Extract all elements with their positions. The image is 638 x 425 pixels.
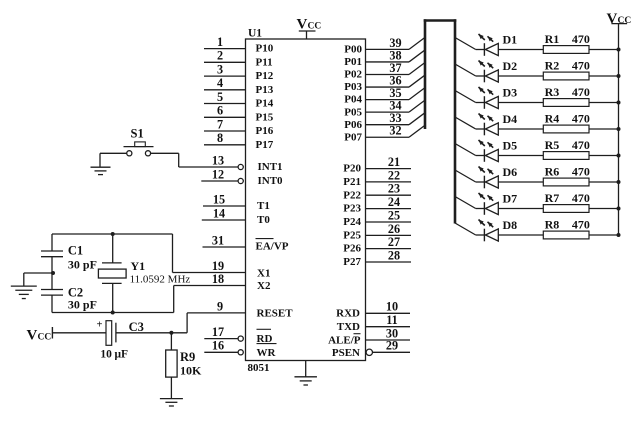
svg-text:P26: P26 — [343, 243, 361, 255]
C2 reference label — [68, 285, 83, 299]
switch S1 pushbutton — [124, 142, 154, 156]
svg-text:INT0: INT0 — [258, 175, 284, 187]
wire pin 28 (P27) — [366, 248, 412, 262]
node junction rail row 5 — [617, 154, 621, 158]
svg-text:R9: R9 — [180, 350, 195, 364]
wire bus to D4 (diagonal) — [455, 117, 484, 129]
D1 reference label — [503, 33, 518, 47]
svg-text:P00: P00 — [344, 44, 362, 56]
resistor R2 — [543, 72, 589, 80]
wire pin 5 (P14) — [204, 90, 246, 104]
wire pin 15 (T1) — [203, 192, 246, 206]
pin label P04 — [344, 94, 362, 106]
svg-text:P11: P11 — [256, 56, 273, 68]
wire D6 to R6 — [498, 181, 543, 183]
power VCC symbol (reset, left) — [27, 327, 53, 344]
capacitor C2 — [41, 290, 63, 296]
pin label EA/VP with overline — [256, 239, 289, 253]
wire pin 19 (X1) — [173, 259, 246, 273]
wire pin 2 (P11) — [204, 49, 246, 63]
pin label T1 — [257, 200, 270, 212]
wire pin 30 (ALE/P) — [366, 326, 411, 340]
svg-text:INT1: INT1 — [258, 161, 283, 173]
svg-text:P17: P17 — [256, 139, 274, 151]
resistor R1 — [543, 46, 589, 54]
svg-text:+: + — [97, 320, 103, 331]
pin label PSEN — [332, 347, 360, 359]
C1 reference label — [68, 244, 83, 258]
svg-text:P10: P10 — [256, 43, 274, 55]
pin label INT0 — [258, 175, 284, 187]
svg-text:T0: T0 — [257, 214, 270, 226]
LED D6 — [479, 167, 499, 189]
wire pin 3 (P12) — [204, 63, 246, 77]
pin label P14 — [256, 98, 274, 110]
pin label P22 — [343, 189, 361, 201]
C2 value label 30 pF — [68, 298, 97, 312]
svg-text:TXD: TXD — [337, 321, 360, 333]
wire C2 top stem — [51, 273, 53, 290]
wire pin 18 (X2) — [174, 272, 246, 286]
wire R3 to VCC rail — [589, 102, 619, 104]
R1 reference label — [545, 32, 560, 46]
wire VCC rail (right) — [618, 24, 620, 235]
8051 value label — [248, 362, 270, 374]
Y1 value label 11.0592 MHz — [130, 273, 191, 285]
resistor R9 — [166, 350, 177, 377]
wire pin 27 (P26) — [366, 235, 412, 249]
crystal Y1 — [98, 263, 126, 284]
node junction rail row 1 — [617, 48, 621, 52]
R5 reference label — [545, 138, 560, 152]
svg-text:C1: C1 — [68, 244, 83, 258]
R7 value label 470 — [572, 191, 590, 205]
svg-text:T1: T1 — [257, 200, 270, 212]
pin label WR with overline — [257, 344, 277, 359]
svg-text:PSEN: PSEN — [332, 347, 360, 359]
bus left edge — [424, 19, 427, 129]
svg-text:470: 470 — [572, 59, 590, 73]
wire D3 to R3 — [498, 102, 543, 104]
svg-text:P21: P21 — [343, 176, 361, 188]
svg-text:RXD: RXD — [336, 308, 360, 320]
svg-text:24: 24 — [388, 195, 400, 209]
wire junction to ground — [24, 273, 52, 286]
wire pin 39 (P00) with diagonal to bus — [366, 36, 426, 50]
wire S1 right terminal to INT1 — [151, 153, 179, 167]
D8 reference label — [503, 218, 518, 232]
capacitor C3 (electrolytic, + mark) — [97, 320, 116, 346]
svg-text:4: 4 — [217, 76, 223, 90]
C3 reference label — [129, 320, 144, 334]
wire VCC to C3 — [52, 332, 106, 334]
R4 value label 470 — [572, 112, 590, 126]
svg-text:ALE/P: ALE/P — [328, 334, 361, 346]
LED D8 — [479, 220, 499, 242]
C3 value label 10uF — [100, 349, 128, 361]
wire R4 to VCC rail — [589, 128, 619, 130]
wire pin 8 (P17) — [204, 131, 246, 145]
svg-text:P06: P06 — [344, 119, 362, 131]
switch S1 label — [131, 127, 144, 141]
svg-text:P04: P04 — [344, 94, 362, 106]
wire pin 1 (P10) — [204, 35, 246, 49]
svg-text:9: 9 — [217, 299, 223, 313]
pin label ALE/P with overline — [328, 334, 361, 347]
R1 value label 470 — [572, 32, 590, 46]
pin label T0 — [257, 214, 270, 226]
pin label P13 — [256, 84, 274, 96]
node junction rail row 6 — [617, 180, 621, 184]
node junction crystal-bottom — [111, 311, 115, 315]
R2 value label 470 — [572, 59, 590, 73]
svg-text:28: 28 — [388, 248, 400, 262]
LED D3 — [479, 87, 499, 109]
svg-text:11.0592 MHz: 11.0592 MHz — [130, 273, 191, 285]
wire crystal bottom rail (to X2) — [52, 286, 174, 313]
wire pin 36 (P03) with diagonal to bus — [366, 73, 426, 87]
svg-text:V: V — [607, 11, 618, 27]
bus right edge — [454, 19, 457, 223]
pin label P15 — [256, 111, 274, 123]
wire R9 top stem — [170, 333, 172, 350]
svg-text:12: 12 — [212, 167, 224, 181]
pin label P16 — [256, 125, 274, 137]
svg-text:8051: 8051 — [248, 362, 270, 374]
wire pin 14 (T0) — [202, 206, 246, 220]
D7 reference label — [503, 192, 518, 206]
power VCC symbol (IC top) — [297, 17, 322, 40]
pin label P21 — [343, 176, 361, 188]
svg-text:470: 470 — [572, 138, 590, 152]
wire pin 25 (P24) — [366, 208, 412, 222]
pin label P11 — [256, 56, 273, 68]
svg-text:10K: 10K — [180, 363, 202, 377]
D4 reference label — [503, 112, 518, 126]
svg-text:P15: P15 — [256, 111, 274, 123]
wire pin 23 (P22) — [366, 182, 412, 196]
pin label P07 — [344, 131, 362, 143]
svg-text:470: 470 — [572, 32, 590, 46]
wire R1 to VCC rail — [589, 49, 619, 51]
R4 reference label — [545, 112, 560, 126]
node junction rail row 7 — [617, 207, 621, 211]
svg-text:CC: CC — [38, 333, 52, 343]
pin label TXD — [337, 321, 360, 333]
resistor R4 — [543, 125, 589, 133]
svg-text:31: 31 — [212, 233, 224, 247]
wire pin 4 (P13) — [204, 76, 246, 90]
ground (R9) — [160, 399, 183, 406]
wire pin 12 (INT0) with inversion bubble — [201, 167, 243, 183]
R7 reference label — [545, 191, 560, 205]
pin label P20 — [343, 163, 361, 175]
R2 reference label — [545, 59, 560, 73]
svg-text:D3: D3 — [503, 86, 518, 100]
D3 reference label — [503, 86, 518, 100]
svg-text:P20: P20 — [343, 163, 361, 175]
svg-text:R1: R1 — [545, 32, 560, 46]
wire R6 to VCC rail — [589, 181, 619, 183]
node junction rail row 4 — [617, 127, 621, 131]
wire bus to D3 (diagonal) — [455, 91, 484, 103]
R5 value label 470 — [572, 138, 590, 152]
wire C2 bottom stem — [51, 295, 53, 312]
IC U1 (8051) body — [246, 39, 366, 361]
svg-text:D8: D8 — [503, 218, 518, 232]
wire D4 to R4 — [498, 128, 543, 130]
svg-text:CC: CC — [308, 22, 322, 32]
svg-text:P13: P13 — [256, 84, 274, 96]
svg-text:29: 29 — [386, 339, 398, 353]
svg-text:18: 18 — [212, 272, 224, 286]
LED D5 — [479, 140, 499, 162]
wire pin 35 (P04) with diagonal to bus — [366, 86, 426, 100]
wire pin 6 (P15) — [204, 104, 246, 118]
capacitor C1 — [41, 251, 63, 257]
resistor R3 — [543, 99, 589, 107]
wire D5 to R5 — [498, 155, 543, 157]
R9 value label 10K — [180, 363, 202, 377]
svg-text:P16: P16 — [256, 125, 274, 137]
svg-text:P23: P23 — [343, 203, 361, 215]
svg-text:6: 6 — [217, 104, 223, 118]
R3 reference label — [545, 85, 560, 99]
svg-text:V: V — [297, 17, 308, 33]
wire R5 to VCC rail — [589, 155, 619, 157]
svg-text:8: 8 — [217, 131, 223, 145]
pin label P03 — [344, 81, 362, 93]
wire pin 13 (INT1) with inversion bubble — [179, 153, 244, 169]
svg-text:RESET: RESET — [257, 307, 294, 319]
resistor R5 — [543, 152, 589, 160]
svg-text:R8: R8 — [545, 218, 560, 232]
node junction C3/R9 — [169, 331, 173, 335]
pin label RD with overline — [257, 329, 273, 345]
svg-text:R3: R3 — [545, 85, 560, 99]
svg-text:470: 470 — [572, 218, 590, 232]
wire pin 32 (P07) with diagonal to bus — [366, 124, 426, 138]
svg-text:S1: S1 — [131, 127, 144, 141]
wire pin 24 (P23) — [366, 195, 412, 209]
wire D2 to R2 — [498, 75, 543, 77]
U1 reference label — [248, 28, 262, 40]
wire bus to D6 (diagonal) — [455, 170, 484, 182]
wire pin 31 (EA/VP) — [203, 233, 246, 247]
pin label P17 — [256, 139, 274, 151]
pin label X1 — [257, 267, 270, 279]
svg-text:D7: D7 — [503, 192, 518, 206]
pin label P02 — [344, 69, 362, 81]
R8 value label 470 — [572, 218, 590, 232]
svg-text:D4: D4 — [503, 112, 518, 126]
wire C1 top stem — [51, 234, 53, 251]
svg-text:D5: D5 — [503, 139, 518, 153]
pin label P25 — [343, 230, 361, 242]
svg-text:X2: X2 — [257, 280, 271, 292]
R3 value label 470 — [572, 85, 590, 99]
svg-text:D1: D1 — [503, 33, 518, 47]
LED D7 — [479, 193, 499, 215]
wire pin 17 (RD) with inversion bubble — [204, 325, 243, 341]
svg-text:D6: D6 — [503, 165, 518, 179]
svg-text:17: 17 — [212, 325, 224, 339]
svg-text:16: 16 — [212, 339, 224, 353]
svg-text:10: 10 — [100, 349, 112, 361]
svg-text:P03: P03 — [344, 81, 362, 93]
pin label P00 — [344, 44, 362, 56]
svg-text:470: 470 — [572, 112, 590, 126]
wire bus to D2 (diagonal) — [455, 64, 484, 76]
wire pin 33 (P06) with diagonal to bus — [366, 111, 426, 125]
pin label P10 — [256, 43, 274, 55]
node junction rail row 8 — [617, 233, 621, 237]
svg-text:25: 25 — [388, 208, 400, 222]
wire R8 to VCC rail — [589, 234, 619, 236]
ground (C1/C2) — [11, 286, 37, 298]
wire pin 22 (P21) — [366, 168, 412, 182]
svg-text:P24: P24 — [343, 216, 361, 228]
svg-text:P01: P01 — [344, 56, 362, 68]
wire pin 38 (P01) with diagonal to bus — [366, 48, 426, 62]
svg-text:27: 27 — [388, 235, 400, 249]
svg-text:U1: U1 — [248, 28, 262, 40]
R6 value label 470 — [572, 165, 590, 179]
svg-text:WR: WR — [257, 347, 277, 359]
svg-text:C3: C3 — [129, 320, 144, 334]
D5 reference label — [503, 139, 518, 153]
wire R7 to VCC rail — [589, 208, 619, 210]
wire pin 11 (TXD) — [366, 313, 411, 327]
wire D8 to R8 — [498, 234, 543, 236]
svg-text:5: 5 — [217, 90, 223, 104]
svg-text:1: 1 — [217, 35, 223, 49]
D2 reference label — [503, 59, 518, 73]
svg-text:R2: R2 — [545, 59, 560, 73]
wire C3 to RESET riser — [116, 313, 187, 333]
node junction crystal-top — [111, 232, 115, 236]
wire pin 7 (P16) — [204, 117, 246, 131]
wire R9 bottom stem — [170, 377, 172, 399]
resistor R7 — [543, 205, 589, 213]
node junction C1-C2 — [51, 271, 55, 275]
svg-text:P25: P25 — [343, 230, 361, 242]
wire pin 29 (PSEN) with inversion bubble — [366, 339, 410, 356]
pin label P01 — [344, 56, 362, 68]
power VCC symbol (right) — [607, 11, 632, 27]
svg-text:P27: P27 — [343, 256, 361, 268]
svg-text:23: 23 — [388, 182, 400, 196]
pin label P26 — [343, 243, 361, 255]
svg-text:P02: P02 — [344, 69, 362, 81]
wire pin 21 (P20) — [366, 155, 412, 169]
svg-text:26: 26 — [388, 222, 400, 236]
resistor R6 — [543, 178, 589, 186]
pin label X2 — [257, 280, 271, 292]
svg-text:11: 11 — [386, 313, 398, 327]
LED D2 — [479, 61, 499, 83]
svg-text:13: 13 — [212, 153, 224, 167]
R9 reference label — [180, 350, 195, 364]
C1 value label 30 pF — [68, 257, 97, 271]
svg-text:19: 19 — [212, 259, 224, 273]
wire pin 37 (P02) with diagonal to bus — [366, 61, 426, 75]
node junction rail row 3 — [617, 101, 621, 105]
svg-text:P05: P05 — [344, 106, 362, 118]
bus (P0 port to LEDs) top bar — [424, 19, 457, 22]
wire D1 to R1 — [498, 49, 543, 51]
ground (S1) — [91, 167, 111, 174]
D6 reference label — [503, 165, 518, 179]
svg-text:2: 2 — [217, 49, 223, 63]
svg-text:P22: P22 — [343, 189, 361, 201]
pin label P12 — [256, 70, 274, 82]
svg-text:EA/VP: EA/VP — [256, 241, 289, 253]
LED D1 — [479, 34, 499, 56]
pin label P05 — [344, 106, 362, 118]
svg-text:P12: P12 — [256, 70, 274, 82]
svg-text:21: 21 — [388, 155, 400, 169]
node junction rail row 2 — [617, 74, 621, 78]
svg-text:22: 22 — [388, 168, 400, 182]
wire bus to D7 (diagonal) — [455, 197, 484, 209]
svg-text:CC: CC — [618, 16, 632, 26]
svg-text:30 pF: 30 pF — [68, 257, 97, 271]
svg-text:μF: μF — [115, 349, 129, 361]
R8 reference label — [545, 218, 560, 232]
svg-text:3: 3 — [217, 63, 223, 77]
wire pin 26 (P25) — [366, 222, 412, 236]
wire crystal top rail (to X1) — [52, 234, 173, 273]
wire D7 to R7 — [498, 208, 543, 210]
svg-text:470: 470 — [572, 191, 590, 205]
R6 reference label — [545, 165, 560, 179]
svg-text:Y1: Y1 — [131, 259, 146, 273]
wire S1 left terminal to ground — [100, 153, 127, 167]
wire crystal bottom stem — [112, 283, 114, 312]
wire pin 9 (RESET) — [187, 299, 245, 313]
resistor R8 — [543, 231, 589, 239]
svg-text:7: 7 — [217, 117, 223, 131]
wire C1 bottom stem — [51, 257, 53, 273]
LED D4 — [479, 114, 499, 136]
svg-text:470: 470 — [572, 85, 590, 99]
wire R2 to VCC rail — [589, 75, 619, 77]
svg-text:R6: R6 — [545, 165, 560, 179]
svg-text:15: 15 — [213, 192, 225, 206]
svg-text:P07: P07 — [344, 131, 362, 143]
wire crystal top stem — [112, 234, 114, 263]
pin label RXD — [336, 308, 360, 320]
svg-text:32: 32 — [389, 124, 401, 138]
svg-text:X1: X1 — [257, 267, 270, 279]
ground (IC bottom) — [294, 361, 317, 386]
svg-text:30 pF: 30 pF — [68, 298, 97, 312]
svg-text:10: 10 — [386, 300, 398, 314]
svg-text:P14: P14 — [256, 98, 274, 110]
svg-text:14: 14 — [213, 206, 225, 220]
pin label INT1 — [258, 161, 283, 173]
wire bus to D5 (diagonal) — [455, 144, 484, 156]
svg-text:R7: R7 — [545, 191, 560, 205]
pin label P27 — [343, 256, 361, 268]
pin label P06 — [344, 119, 362, 131]
svg-text:R5: R5 — [545, 138, 560, 152]
wire pin 10 (RXD) — [366, 300, 411, 314]
svg-text:D2: D2 — [503, 59, 518, 73]
wire pin 34 (P05) with diagonal to bus — [366, 99, 426, 113]
pin label P24 — [343, 216, 361, 228]
